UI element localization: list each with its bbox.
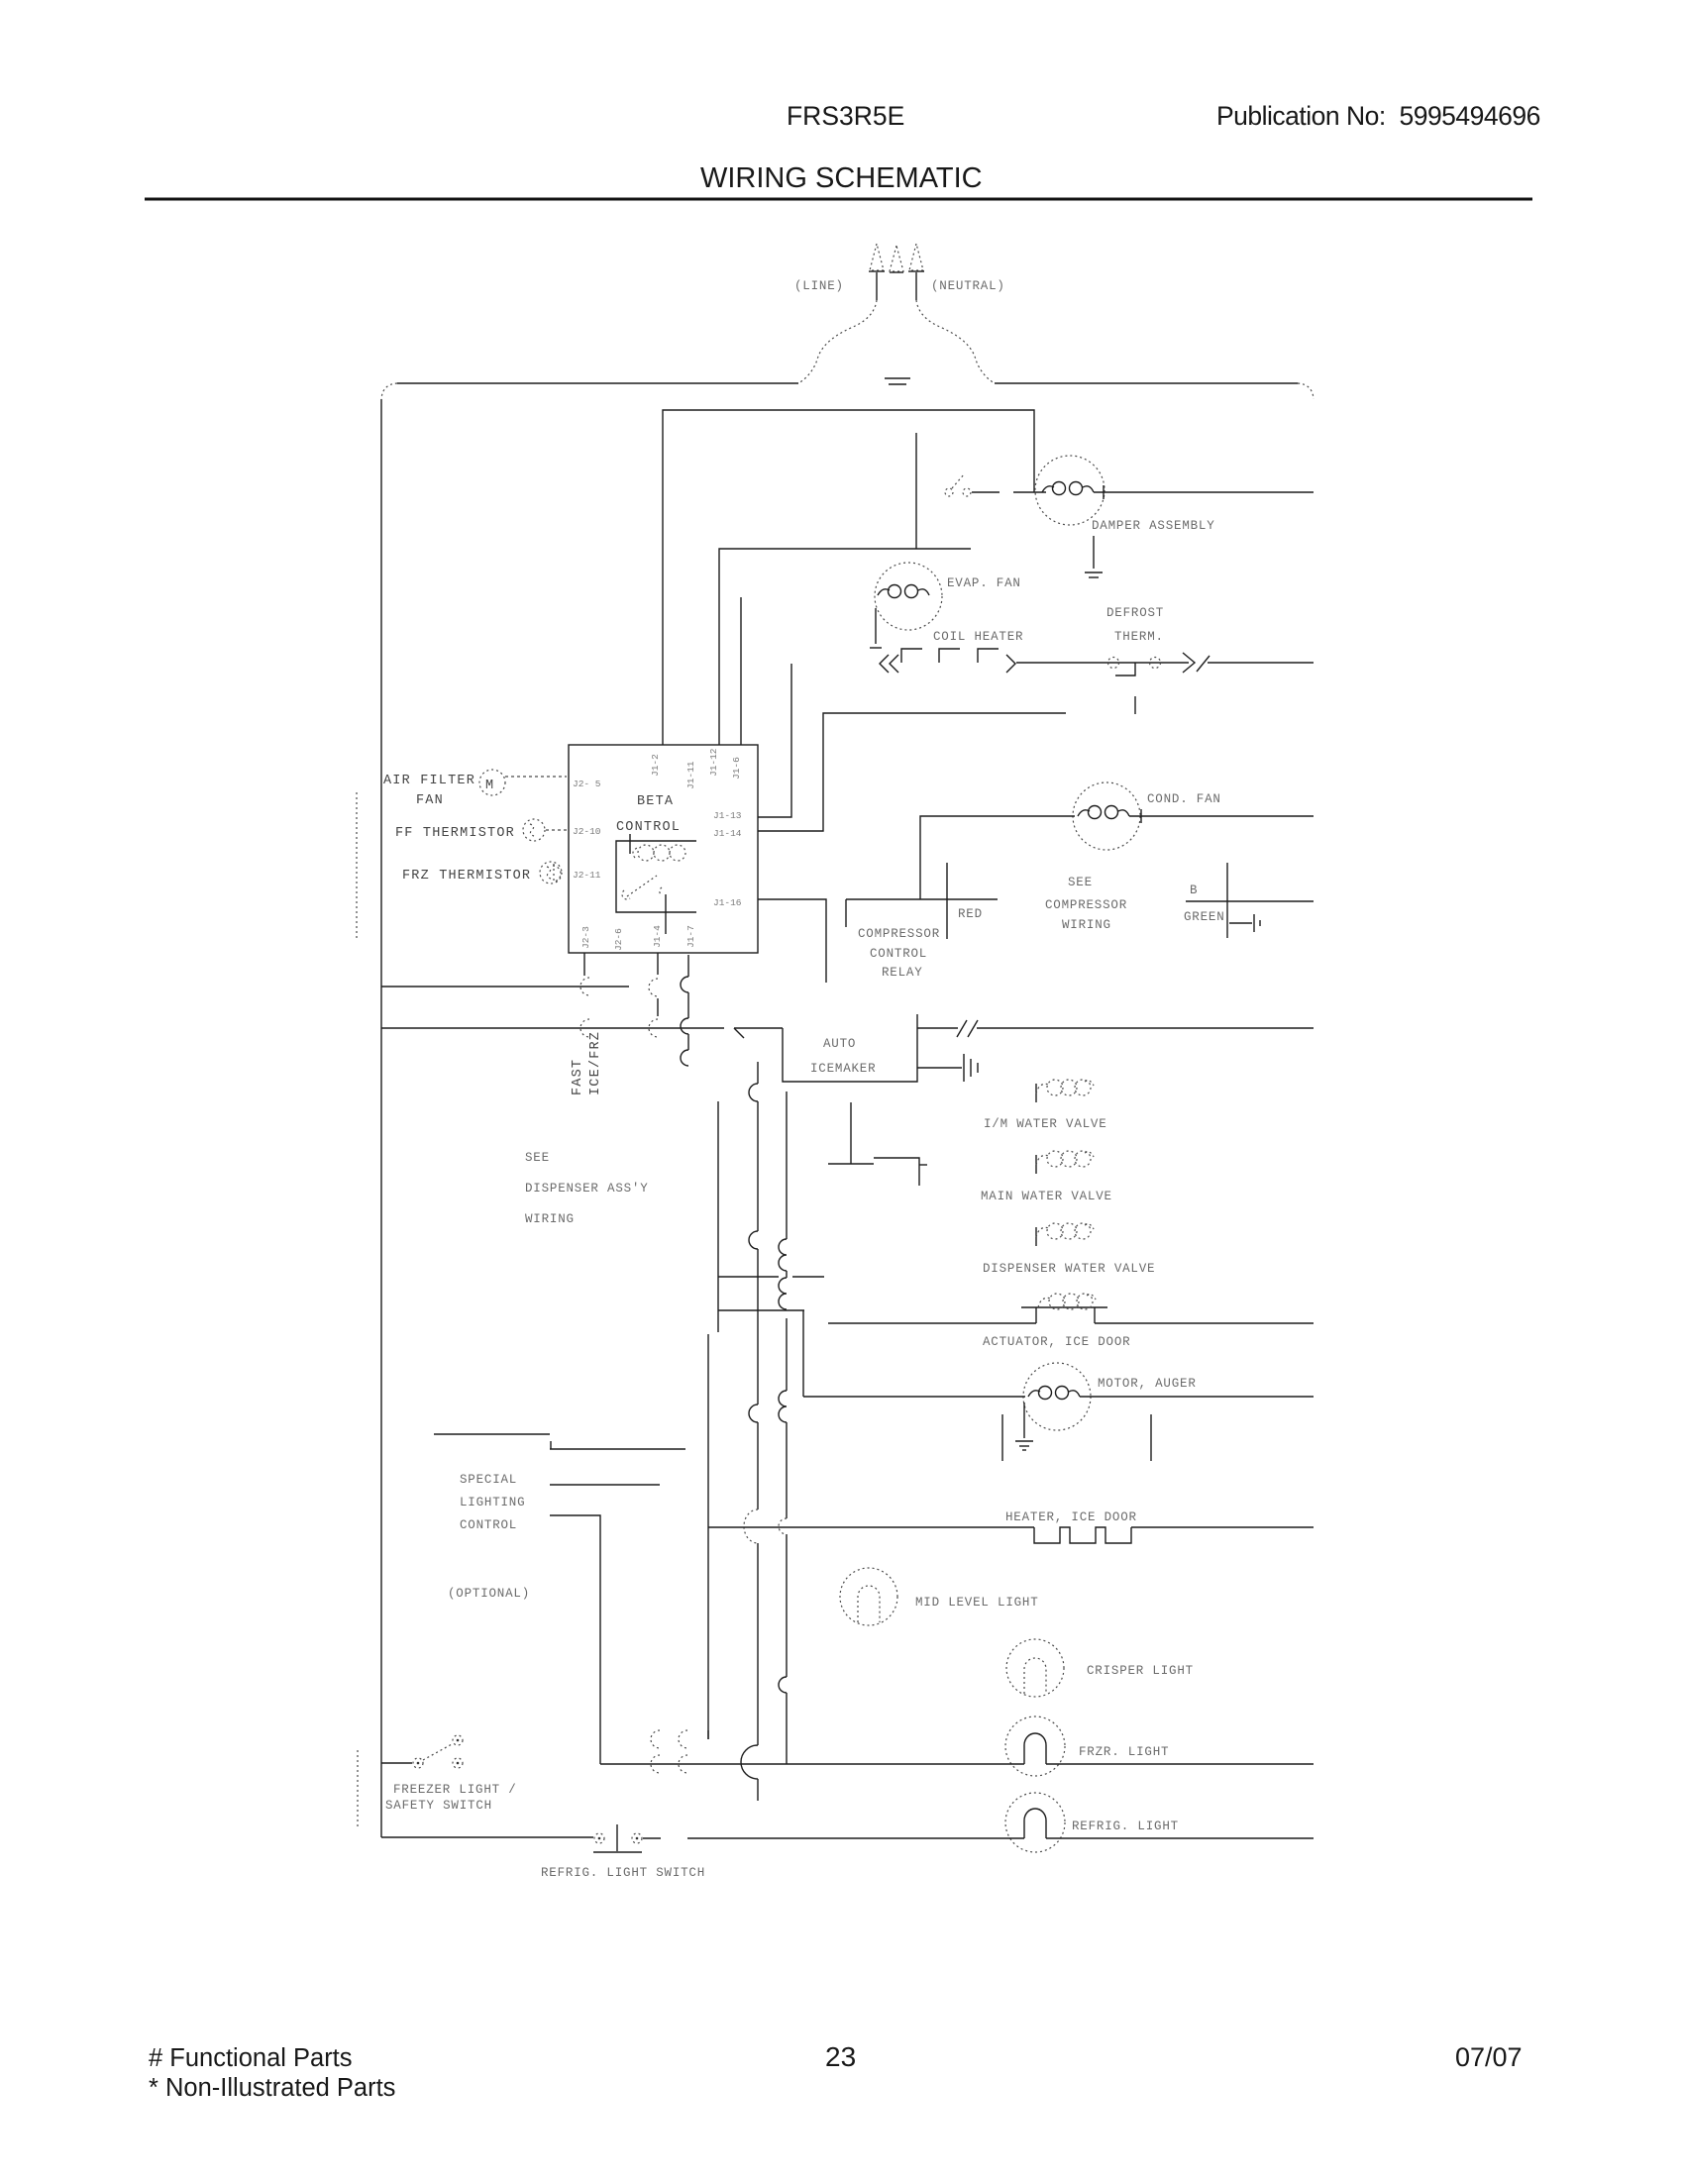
power plug prong LINE (869, 244, 885, 300)
border top-right wire (995, 382, 1298, 384)
dashed margin wire lower (357, 1750, 359, 1827)
wire bus lower-left first (381, 986, 629, 988)
svg-text:(NEUTRAL): (NEUTRAL) (931, 279, 1005, 293)
svg-text:FRS3R5E: FRS3R5E (787, 101, 904, 131)
wire icemaker branch to motor line (802, 1310, 804, 1397)
wire motor auger right (1080, 1396, 1314, 1398)
wire line bus top (663, 410, 1034, 745)
svg-text:THERM.: THERM. (1114, 630, 1164, 644)
wire dispenser column B (741, 1062, 758, 1801)
svg-text:J1-13: J1-13 (713, 810, 742, 821)
freezer light bus (600, 1763, 1314, 1765)
connector chevrons coil heater (870, 648, 898, 673)
auto icemaker box (783, 1014, 917, 1082)
coil actuator ice door (1021, 1294, 1107, 1309)
icemaker ground connector (917, 1054, 978, 1082)
wire actuator left (828, 1322, 1036, 1324)
svg-text:MOTOR, AUGER: MOTOR, AUGER (1098, 1377, 1197, 1391)
svg-text:* Non-Illustrated Parts: * Non-Illustrated Parts (149, 2074, 395, 2102)
wire icemaker output (917, 1020, 1314, 1037)
wire stub below thermostat (1134, 696, 1136, 714)
mid level light lamp (840, 1568, 897, 1625)
svg-text:Publication No: 5995494696: Publication No: 5995494696 (1216, 101, 1540, 131)
label SPECIAL LIGHTING CONTROL (460, 1473, 525, 1532)
wire heater ice door left (708, 1526, 1034, 1528)
svg-text:CONTROL: CONTROL (870, 947, 927, 961)
border left wire (380, 399, 382, 1837)
svg-text:REFRIG. LIGHT: REFRIG. LIGHT (1072, 1820, 1179, 1833)
wire J1-13 riser (758, 664, 791, 817)
svg-text:J1-7: J1-7 (685, 925, 696, 948)
svg-text:J1-11: J1-11 (685, 761, 696, 789)
svg-text:J2-3: J2-3 (580, 926, 591, 949)
coil I/M water valve (1036, 1080, 1094, 1102)
svg-text:WIRING: WIRING (1062, 918, 1111, 932)
svg-text:AUTO: AUTO (823, 1037, 856, 1051)
icemaker internal hook (874, 1158, 927, 1186)
freezer light safety switch (381, 1735, 463, 1768)
wire green bus to right edge (1186, 900, 1314, 902)
wire evap fan feed (719, 549, 971, 745)
svg-text:COND. FAN: COND. FAN (1147, 792, 1221, 806)
wire beta J1-7 drop (681, 955, 688, 1066)
svg-text:RED: RED (958, 907, 983, 921)
beta control board box (569, 745, 758, 953)
wire air filter fan dashed (505, 776, 567, 778)
svg-text:BETA: BETA (637, 794, 674, 809)
svg-text:07/07: 07/07 (1455, 2042, 1523, 2072)
defrost thermostat (1108, 658, 1161, 676)
power plug prong GROUND (890, 246, 903, 272)
svg-text:EVAP. FAN: EVAP. FAN (947, 576, 1021, 590)
svg-text:REFRIG. LIGHT SWITCH: REFRIG. LIGHT SWITCH (541, 1866, 705, 1880)
svg-text:(LINE): (LINE) (794, 279, 844, 293)
wire FF thermistor to beta (546, 829, 568, 831)
capacitor green lead (1229, 914, 1260, 932)
wire cond fan to right edge (1129, 815, 1314, 817)
svg-text:MID LEVEL LIGHT: MID LEVEL LIGHT (915, 1596, 1039, 1610)
switch damper control (945, 474, 971, 496)
connector mark fast frz on second bus (580, 1019, 658, 1037)
label FREEZER LIGHT / SAFETY SWITCH (385, 1783, 517, 1813)
svg-text:COIL HEATER: COIL HEATER (933, 630, 1023, 644)
svg-text:ICEMAKER: ICEMAKER (810, 1062, 876, 1076)
label AUTO ICEMAKER (810, 1037, 876, 1076)
svg-text:J1-4: J1-4 (652, 925, 663, 948)
label DEFROST THERM. (1106, 606, 1164, 644)
connector mark fast ice on first bus (580, 978, 658, 996)
border top-left rounded corner (381, 383, 397, 399)
wire dispenser branch (718, 1309, 804, 1311)
stub wire right of ground (1150, 1414, 1152, 1461)
ground mark under plug (885, 378, 910, 384)
svg-text:COMPRESSOR: COMPRESSOR (1045, 898, 1127, 912)
plug cord right wire (916, 300, 995, 383)
connector arrow defrost line (1183, 653, 1210, 673)
svg-text:ICE/FRZ: ICE/FRZ (588, 1031, 603, 1095)
svg-text:23: 23 (825, 2041, 856, 2072)
label COMPRESSOR CONTROL RELAY (858, 927, 940, 980)
wire J1-6 drop (740, 597, 742, 745)
resistor heater ice door (1034, 1527, 1131, 1543)
svg-text:J1-6: J1-6 (731, 757, 742, 780)
refrig light lamp (1005, 1793, 1065, 1852)
svg-text:FREEZER LIGHT /: FREEZER LIGHT / (393, 1783, 517, 1797)
coil dispenser water valve (1036, 1223, 1094, 1246)
wire compressor stub left (845, 899, 847, 927)
wire dispenser branch upper (718, 1276, 824, 1278)
border top-left wire (397, 382, 798, 384)
svg-text:WIRING: WIRING (525, 1212, 575, 1226)
svg-text:J2-10: J2-10 (573, 826, 601, 837)
svg-text:SAFETY SWITCH: SAFETY SWITCH (385, 1799, 492, 1813)
crisper light lamp (1006, 1639, 1064, 1697)
motor auger circle (1023, 1363, 1091, 1430)
ground damper assembly (1085, 536, 1103, 577)
wire switch to damper (972, 491, 1046, 493)
svg-text:COMPRESSOR: COMPRESSOR (858, 927, 940, 941)
resistor coil heater (901, 649, 999, 663)
wire stub dispenser column A end (707, 1730, 709, 1739)
svg-text:J1-14: J1-14 (713, 828, 742, 839)
svg-text:WIRING SCHEMATIC: WIRING SCHEMATIC (700, 162, 983, 194)
plug cord left wire (798, 300, 877, 383)
wire J1-16 compressor (758, 899, 826, 983)
FRZ thermistor (540, 862, 562, 884)
svg-text:SPECIAL: SPECIAL (460, 1473, 517, 1487)
refrig bus bottom (381, 1836, 593, 1838)
svg-text:J2- 5: J2- 5 (573, 779, 601, 789)
wire GREEN ground lead (1226, 863, 1228, 938)
wire stub into evap fan (915, 433, 917, 549)
cond fan winding (1078, 806, 1129, 819)
refrig light switch (593, 1824, 661, 1852)
svg-text:FRZR. LIGHT: FRZR. LIGHT (1079, 1745, 1169, 1759)
cond fan motor circle (1073, 782, 1140, 850)
coil main water valve (1036, 1151, 1094, 1174)
damper assembly motor circle (1035, 456, 1105, 525)
wire beta J2-3 drop (583, 953, 585, 976)
svg-text:GREEN: GREEN (1184, 910, 1225, 924)
wire dispenser column A lower (707, 1334, 709, 1739)
title rule (145, 198, 1532, 201)
icemaker internal common (828, 1102, 874, 1164)
wire heater to defrost thermostat (1016, 662, 1189, 664)
svg-text:J1-12: J1-12 (708, 748, 719, 777)
svg-text:SEE: SEE (525, 1151, 550, 1165)
svg-text:DAMPER ASSEMBLY: DAMPER ASSEMBLY (1092, 519, 1215, 533)
svg-text:DEFROST: DEFROST (1106, 606, 1164, 620)
svg-text:MAIN WATER VALVE: MAIN WATER VALVE (981, 1190, 1112, 1203)
wire bus lower-left second (381, 1027, 724, 1029)
svg-text:DISPENSER ASS'Y: DISPENSER ASS'Y (525, 1182, 649, 1196)
svg-text:FAST: FAST (571, 1059, 585, 1095)
wire compressor bus (846, 898, 998, 900)
svg-text:# Functional Parts: # Functional Parts (149, 2044, 353, 2072)
wire cond fan left (920, 816, 1075, 899)
arrow into icemaker (734, 1028, 783, 1038)
relay switch blade (622, 876, 662, 899)
connector marks freezer bus (651, 1730, 687, 1773)
svg-text:J1-16: J1-16 (713, 897, 742, 908)
air filter fan motor (479, 770, 505, 795)
svg-text:DISPENSER WATER VALVE: DISPENSER WATER VALVE (983, 1262, 1155, 1276)
border top-right rounded corner (1298, 383, 1314, 399)
wire dispenser column C (779, 1092, 787, 1764)
wire motor auger left (803, 1396, 1025, 1398)
svg-text:(OPTIONAL): (OPTIONAL) (448, 1587, 530, 1601)
svg-text:CONTROL: CONTROL (460, 1518, 517, 1532)
frzr light lamp (1005, 1716, 1065, 1776)
wire dispenser column A (717, 1101, 719, 1332)
svg-text:J2-6: J2-6 (613, 928, 624, 951)
svg-text:AIR FILTER: AIR FILTER (383, 774, 475, 788)
relay output wire (665, 894, 667, 934)
damper motor winding (1042, 482, 1094, 495)
label FAST ICE/FRZ (571, 1031, 603, 1095)
connector chevron right (1006, 655, 1015, 673)
svg-text:RELAY: RELAY (882, 966, 923, 980)
ground motor auger (1015, 1403, 1033, 1450)
dashed margin wire upper (356, 792, 358, 941)
svg-text:FF THERMISTOR: FF THERMISTOR (395, 826, 515, 841)
label SEE DISPENSER ASSY WIRING (525, 1151, 649, 1226)
wire actuator right (1095, 1322, 1314, 1324)
relay inside beta control (616, 834, 696, 912)
svg-text:SEE: SEE (1068, 876, 1093, 889)
stub wire left of ground (1001, 1414, 1003, 1461)
relay coil (633, 845, 685, 861)
wire heater ice door right (1131, 1526, 1314, 1528)
wire refrig bus right (687, 1837, 1314, 1839)
evap fan motor circle (875, 563, 942, 630)
label SEE COMPRESSOR WIRING (1045, 876, 1127, 932)
svg-text:J2-11: J2-11 (573, 870, 601, 881)
wire defrost to right edge (1208, 662, 1314, 664)
wire evap fan to heater (875, 608, 877, 644)
svg-text:J1-2: J1-2 (650, 754, 661, 777)
FF thermistor (523, 819, 545, 841)
svg-text:FAN: FAN (416, 793, 444, 808)
svg-text:ACTUATOR, ICE DOOR: ACTUATOR, ICE DOOR (983, 1335, 1130, 1349)
motor auger winding (1028, 1387, 1080, 1400)
evap fan motor winding (878, 585, 929, 598)
wire J1-14 to defrost thermostat (758, 713, 1066, 831)
power plug prong NEUTRAL (908, 244, 924, 300)
svg-text:CONTROL: CONTROL (616, 820, 681, 835)
wire RED compressor (946, 863, 948, 939)
svg-text:FRZ THERMISTOR: FRZ THERMISTOR (402, 869, 531, 884)
wire beta J1-4 drop (657, 953, 659, 1016)
svg-text:LIGHTING: LIGHTING (460, 1496, 525, 1509)
svg-text:CRISPER LIGHT: CRISPER LIGHT (1087, 1664, 1194, 1678)
svg-text:HEATER, ICE DOOR: HEATER, ICE DOOR (1005, 1510, 1137, 1524)
wire damper to right edge (1094, 491, 1314, 493)
special lighting control lines (434, 1434, 685, 1764)
actuator risers (1036, 1307, 1095, 1323)
wire FRZ thermistor to beta (553, 866, 561, 882)
svg-text:B: B (1190, 884, 1198, 897)
label AIR FILTER FAN (383, 774, 475, 808)
svg-text:M: M (485, 779, 494, 793)
svg-text:I/M WATER VALVE: I/M WATER VALVE (984, 1117, 1107, 1131)
